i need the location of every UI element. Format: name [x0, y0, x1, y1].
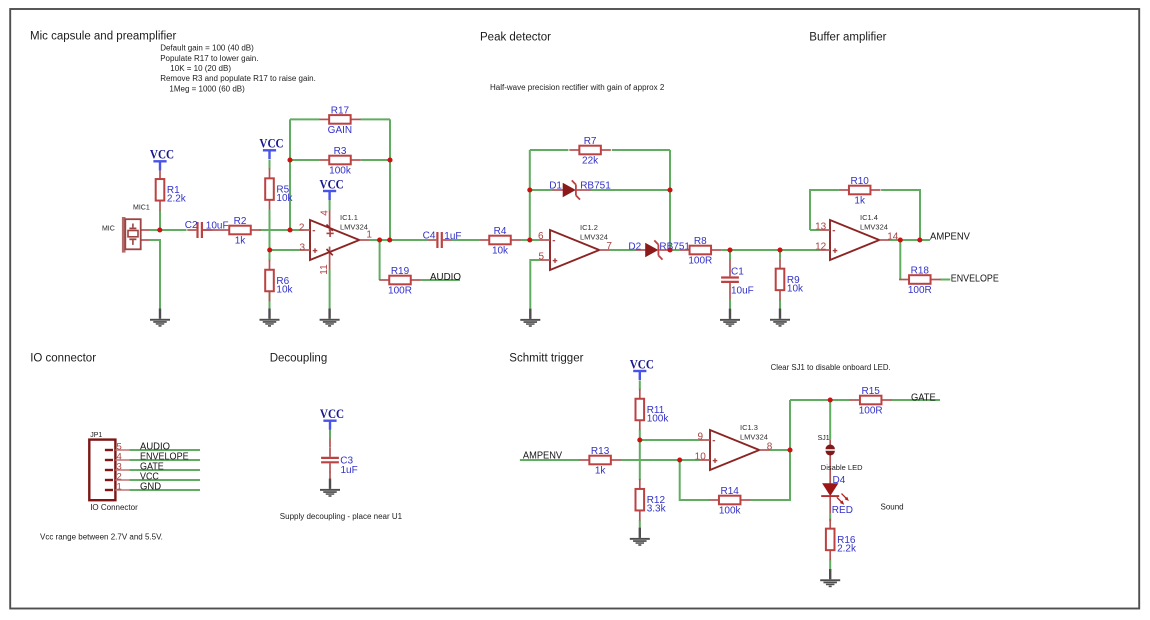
wire pin8 to node — [770, 449, 790, 451]
wire peak feedback right column — [669, 150, 671, 250]
svg-text:C1: C1 — [731, 267, 744, 278]
svg-text:10K = 10 (20 dB): 10K = 10 (20 dB) — [170, 64, 231, 73]
junction: audio branch node — [377, 237, 382, 242]
wire SJ1 to D4 pin — [829, 455, 831, 484]
wire pin4 vcc segment — [329, 200, 331, 211]
resistor R12 3.3k — [636, 479, 667, 521]
svg-text:22k: 22k — [582, 156, 599, 167]
connector JP1 pin 2 VCC — [105, 471, 159, 482]
wire feedback right column — [389, 119, 391, 240]
capacitor C1 10uF — [721, 267, 754, 297]
wire D1 anode pin — [552, 189, 563, 191]
wire pin7 to D2 — [610, 249, 636, 251]
svg-text:100R: 100R — [908, 285, 932, 296]
wire C3 top pin ext — [329, 439, 331, 448]
svg-text:ENVELOPE: ENVELOPE — [951, 273, 999, 284]
wire op-amp4 output to AMPENV — [890, 239, 930, 241]
wire JP1 pin3 GATE — [129, 469, 200, 471]
wire feedback left column — [289, 119, 291, 230]
svg-text:4: 4 — [320, 210, 331, 216]
wire feedback down to R14 — [680, 460, 709, 500]
wire C1 top pin ext — [729, 260, 731, 268]
wire D4 to R16 — [829, 513, 831, 521]
resistor R3 100k — [319, 146, 361, 177]
svg-text:Sound: Sound — [881, 503, 904, 512]
junction: pin9 divider node — [637, 437, 642, 442]
microphone MIC1 — [102, 205, 150, 253]
op-amp IC1.4 pin stubs — [820, 230, 890, 250]
svg-text:VCC: VCC — [150, 147, 174, 162]
connector JP1 — [89, 432, 138, 512]
svg-text:Schmitt trigger: Schmitt trigger — [509, 352, 583, 364]
ground at R16 — [820, 569, 840, 587]
svg-text:Decoupling: Decoupling — [270, 352, 328, 364]
svg-text:100R: 100R — [688, 256, 712, 267]
svg-text:AUDIO: AUDIO — [430, 272, 461, 283]
op-amp IC1.1 pin stubs — [300, 230, 370, 250]
svg-text:R19: R19 — [391, 266, 410, 277]
wire mic output to C2 — [150, 229, 187, 231]
svg-text:R18: R18 — [911, 265, 930, 276]
svg-text:Half-wave precision rectifier: Half-wave precision rectifier with gain … — [490, 83, 665, 92]
wire divider node to pin9 — [640, 439, 700, 441]
svg-text:Peak detector: Peak detector — [480, 32, 551, 44]
svg-text:R4: R4 — [494, 226, 507, 237]
wire R15 to GATE — [891, 399, 940, 401]
wire JP1 pin2 VCC — [129, 479, 200, 481]
wire divider to pin3 — [270, 249, 301, 251]
svg-text:6: 6 — [538, 231, 544, 242]
svg-text:R10: R10 — [851, 176, 870, 187]
wire to pin13 — [810, 229, 820, 231]
wire VCC to R5 — [269, 160, 271, 169]
resistor R14 100k — [709, 486, 751, 517]
junction: D2 cathode node — [667, 247, 672, 252]
svg-text:Populate R17 to lower gain.: Populate R17 to lower gain. — [160, 54, 258, 63]
svg-text:VCC: VCC — [320, 176, 344, 191]
svg-text:100R: 100R — [859, 406, 883, 417]
svg-text:R14: R14 — [721, 486, 740, 497]
svg-text:IO Connector: IO Connector — [90, 503, 138, 512]
wire VCC to R11 — [639, 380, 641, 389]
resistor R17 GAIN — [319, 105, 361, 136]
op-amp IC1.1 power pin 11 — [319, 247, 333, 275]
wire branch to R18 — [899, 240, 901, 280]
svg-text:100k: 100k — [647, 413, 670, 424]
junction: R9 node — [777, 247, 782, 252]
wire R3 row — [290, 159, 390, 161]
svg-text:Remove R3 and populate R17 to: Remove R3 and populate R17 to raise gain… — [160, 74, 316, 83]
svg-text:1Meg = 1000 (60 dB): 1Meg = 1000 (60 dB) — [169, 84, 245, 93]
resistor R10 1k — [839, 176, 881, 207]
wire output rail to R15 — [790, 399, 850, 401]
svg-text:R8: R8 — [694, 236, 707, 247]
svg-text:AMPENV: AMPENV — [523, 450, 563, 461]
junction: ampenv branch node — [898, 237, 903, 242]
capacitor C2 10uF — [185, 220, 229, 238]
op-amp IC1.2 pin stubs — [540, 240, 610, 260]
ground at IC1.1 pin11 — [320, 309, 340, 327]
ground at IC1.2 pin5 — [520, 309, 540, 327]
wire R2 to op-amp pin2 — [260, 229, 300, 231]
junction: R3 left node — [287, 157, 292, 162]
svg-text:SJ1: SJ1 — [818, 435, 830, 442]
wire JP1 pin5 AUDIO — [129, 449, 200, 451]
junction: mic output node — [157, 227, 162, 232]
wire SJ1 top pin — [829, 440, 831, 445]
svg-text:JP1: JP1 — [90, 432, 102, 439]
svg-text:R17: R17 — [331, 105, 350, 116]
wire pin5 to ground — [530, 260, 540, 309]
svg-text:2.2k: 2.2k — [167, 194, 187, 205]
svg-text:LMV324: LMV324 — [860, 223, 888, 232]
svg-text:IC1.1: IC1.1 — [340, 213, 358, 222]
svg-text:1: 1 — [366, 230, 372, 241]
vcc symbol at R11 — [630, 356, 654, 380]
svg-text:10: 10 — [695, 451, 707, 462]
capacitor C3 1uF — [321, 448, 358, 476]
wire C1 bottom pin ext — [729, 292, 731, 300]
junction: pin8 output node — [787, 447, 792, 452]
solder jumper SJ1 — [818, 435, 835, 456]
svg-text:10k: 10k — [276, 284, 293, 295]
wire C4 to R4 — [452, 239, 479, 241]
svg-text:RED: RED — [832, 505, 853, 516]
ground at C1 — [720, 309, 740, 327]
svg-text:100k: 100k — [719, 506, 742, 517]
wire R17 row — [290, 118, 390, 120]
svg-text:LMV324: LMV324 — [740, 433, 768, 442]
ground at R12 — [630, 528, 650, 546]
junction: pin10 node — [677, 457, 682, 462]
svg-text:Clear SJ1 to disable onboard L: Clear SJ1 to disable onboard LED. — [771, 363, 891, 372]
wire R13 to pin10 — [621, 459, 700, 461]
svg-text:RB751: RB751 — [580, 181, 611, 192]
resistor R13 1k — [579, 446, 621, 477]
junction: C1 node — [727, 247, 732, 252]
svg-text:D1: D1 — [549, 181, 562, 192]
resistor R9 10k — [776, 259, 804, 301]
wire AMPENV to R13 — [520, 459, 580, 461]
wire branch to R19 — [379, 240, 381, 280]
wire JP1 pin4 ENVELOPE — [129, 459, 200, 461]
note: gain options — [160, 44, 316, 94]
junction: pin6 node — [527, 237, 532, 242]
wire R5 to R6 divider — [269, 210, 271, 261]
wire D4 cathode pin — [829, 497, 831, 513]
wire D1 cathode pin — [577, 189, 591, 191]
svg-text:5: 5 — [538, 251, 544, 262]
resistor R7 22k — [569, 136, 611, 167]
svg-text:GND: GND — [140, 482, 161, 493]
svg-text:2.2k: 2.2k — [837, 543, 857, 554]
svg-text:R13: R13 — [591, 446, 610, 457]
svg-text:IC1.3: IC1.3 — [740, 423, 758, 432]
connector JP1 pin 3 GATE — [105, 461, 164, 472]
junction: D1 right node — [667, 187, 672, 192]
diode D2 RB751 — [628, 240, 690, 259]
svg-text:13: 13 — [815, 221, 827, 232]
svg-text:IC1.2: IC1.2 — [580, 223, 598, 232]
junction: R3 right node — [387, 157, 392, 162]
vcc symbol at C3 — [320, 406, 344, 430]
junction: R10 join node — [917, 237, 922, 242]
capacitor C4 1uF — [423, 230, 462, 248]
connector JP1 pin 1 GND — [105, 481, 161, 492]
wire D1 row — [530, 189, 670, 191]
wire JP1 pin1 GND — [129, 489, 200, 491]
svg-text:12: 12 — [815, 241, 827, 252]
svg-text:9: 9 — [697, 431, 703, 442]
svg-text:IC1.4: IC1.4 — [860, 213, 878, 222]
wire D2 to R8 — [670, 249, 680, 251]
wire op-amp1 output to C4 — [370, 239, 428, 241]
ground at R6 — [260, 309, 280, 327]
wire node to R9 — [779, 250, 781, 259]
svg-text:MIC1: MIC1 — [133, 205, 150, 212]
wire R7 row — [530, 149, 670, 151]
svg-text:100R: 100R — [388, 286, 412, 297]
wire node down to SJ1 — [829, 400, 831, 440]
svg-text:GATE: GATE — [911, 393, 936, 404]
svg-text:LMV324: LMV324 — [340, 223, 368, 232]
wire R1 bottom to mic node — [159, 210, 161, 230]
wire C1 to ground — [729, 300, 731, 309]
svg-text:7: 7 — [606, 241, 612, 252]
resistor R4 10k — [479, 226, 521, 257]
op-amp IC1.2 — [550, 223, 608, 270]
svg-text:8: 8 — [767, 442, 773, 453]
svg-text:1k: 1k — [854, 196, 866, 207]
wire mic pin2 to ground — [150, 240, 160, 309]
wire peak feedback left column — [529, 150, 531, 240]
svg-text:10k: 10k — [787, 283, 804, 294]
resistor R5 10k — [265, 168, 293, 210]
svg-text:R2: R2 — [234, 216, 247, 227]
ground at C3 — [320, 479, 340, 497]
op-amp IC1.3 pin stubs — [700, 440, 770, 460]
wire C2 to R2 (pin) — [203, 229, 219, 231]
svg-text:100k: 100k — [329, 166, 352, 177]
svg-text:1uF: 1uF — [341, 465, 358, 476]
wire R18 to ENVELOPE — [940, 279, 951, 281]
svg-text:Buffer amplifier: Buffer amplifier — [809, 32, 886, 44]
svg-text:Default gain = 100 (40 dB): Default gain = 100 (40 dB) — [160, 44, 254, 53]
svg-text:R15: R15 — [862, 386, 881, 397]
diode D1 RB751 — [549, 180, 611, 199]
wire R9 to ground — [779, 300, 781, 309]
svg-text:R7: R7 — [584, 136, 597, 147]
svg-text:1uF: 1uF — [444, 231, 461, 242]
ground at mic — [150, 309, 170, 327]
vcc symbol at IC1.1 pin4 — [320, 176, 344, 200]
svg-text:10uF: 10uF — [206, 221, 229, 232]
wire R10 feedback loop — [810, 190, 920, 240]
op-amp IC1.4 — [830, 213, 888, 260]
junction: gate/SJ1 node — [828, 397, 833, 402]
svg-text:VCC: VCC — [320, 406, 344, 421]
svg-text:Disable LED: Disable LED — [821, 463, 863, 472]
svg-text:C2: C2 — [185, 220, 198, 231]
wire pin11 to ground — [329, 270, 331, 309]
wire R8 to op-amp pin12 — [721, 249, 820, 251]
resistor R6 10k — [265, 260, 293, 302]
wire R11 to R12 column — [639, 430, 641, 481]
svg-text:MIC: MIC — [102, 226, 115, 233]
svg-text:1k: 1k — [595, 466, 607, 477]
junction: pin2 node — [287, 227, 292, 232]
svg-text:AMPENV: AMPENV — [930, 232, 970, 243]
svg-text:Supply decoupling - place near: Supply decoupling - place near U1 — [280, 512, 403, 521]
svg-text:C4: C4 — [423, 230, 436, 241]
resistor R15 100R — [850, 386, 892, 417]
svg-text:11: 11 — [319, 264, 330, 275]
wire R4 to pin6 node — [521, 239, 540, 241]
svg-text:3: 3 — [299, 242, 305, 253]
ground at R9 — [770, 309, 790, 327]
junction: D1 left node — [527, 187, 532, 192]
op-amp IC1.1 power pin 4 — [320, 210, 334, 237]
svg-text:VCC: VCC — [259, 136, 283, 151]
op-amp IC1.3 — [710, 423, 768, 470]
resistor R16 2.2k — [826, 519, 857, 561]
wire R19 to AUDIO — [421, 279, 460, 281]
svg-text:10k: 10k — [492, 246, 509, 257]
LED D4 RED — [821, 475, 853, 516]
junction: pin3 divider node — [267, 247, 272, 252]
wire R16 to ground — [829, 560, 831, 571]
svg-text:10k: 10k — [276, 193, 293, 204]
svg-text:LMV324: LMV324 — [580, 233, 608, 242]
wire VCC to C3 — [329, 429, 331, 439]
svg-text:10uF: 10uF — [731, 286, 754, 297]
wire R12 to ground — [639, 520, 641, 528]
connector JP1 pin 4 ENVELOPE — [105, 451, 189, 462]
connector JP1 pin 5 AUDIO — [105, 441, 170, 452]
svg-text:IO connector: IO connector — [30, 352, 96, 364]
svg-text:1: 1 — [117, 481, 122, 492]
vcc symbol at R5 — [259, 136, 283, 160]
resistor R18 100R — [899, 265, 941, 296]
resistor R11 100k — [636, 389, 670, 431]
svg-text:14: 14 — [887, 232, 899, 243]
op-amp IC1.1 — [310, 213, 368, 260]
svg-text:RB751: RB751 — [659, 242, 690, 253]
resistor R1 2.2k — [156, 169, 187, 211]
svg-text:1k: 1k — [235, 236, 247, 247]
resistor R19 100R — [379, 266, 421, 297]
wire C3 bottom pin ext — [329, 472, 331, 480]
svg-text:VCC: VCC — [630, 356, 654, 371]
svg-text:2: 2 — [299, 223, 305, 234]
svg-text:D2: D2 — [628, 242, 641, 253]
svg-text:Vcc range between 2.7V and 5.5: Vcc range between 2.7V and 5.5V. — [40, 532, 163, 541]
svg-text:GAIN: GAIN — [328, 125, 352, 136]
svg-text:Mic capsule and preamplifier: Mic capsule and preamplifier — [30, 30, 177, 42]
wire R6 to ground — [269, 291, 271, 309]
svg-text:3.3k: 3.3k — [647, 504, 667, 515]
wire node to C1 — [729, 250, 731, 260]
svg-text:R3: R3 — [334, 146, 347, 157]
wire D2 anode pin — [635, 249, 646, 251]
wire R14 up to output node — [750, 400, 790, 500]
resistor R8 100R — [680, 236, 722, 267]
wire D2 cathode pin — [659, 249, 670, 251]
junction: feedback join node — [387, 237, 392, 242]
vcc symbol at R1 — [150, 147, 174, 171]
resistor R2 1k — [219, 216, 261, 247]
svg-text:D4: D4 — [833, 475, 846, 486]
